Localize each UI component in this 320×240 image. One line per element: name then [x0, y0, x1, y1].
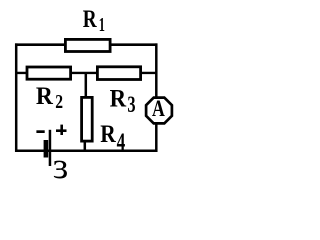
wire: R4 branch lower segment (R4 bottom to bottom wire) [84, 141, 87, 151]
svg-text:R: R [100, 121, 116, 148]
resistor R1 (top branch) [65, 39, 110, 51]
svg-text:3: 3 [127, 92, 135, 118]
svg-text:ε: ε [53, 146, 69, 180]
resistor R3 (right middle branch) [97, 67, 140, 80]
svg-text:A: A [152, 96, 165, 121]
svg-text:1: 1 [99, 14, 105, 36]
battery minus sign [36, 130, 44, 133]
battery positive plate (long thin bar) [49, 130, 52, 166]
battery plus sign (horizontal bar) [56, 129, 67, 132]
resistor R2 (left middle branch) [27, 67, 71, 79]
svg-text:R: R [36, 83, 54, 110]
svg-text:R: R [110, 85, 127, 112]
ammeter A1 body (octagonal circle) [146, 98, 172, 124]
battery negative plate (short thick bar) [44, 140, 49, 158]
svg-text:4: 4 [117, 129, 126, 156]
label epsilon (EMF of battery) [53, 146, 69, 187]
wire: left side of outer loop [15, 43, 18, 152]
wire: top side of outer loop [15, 43, 158, 46]
wire: middle horizontal wire with R2 and R3 [16, 72, 156, 74]
wire: R4 branch upper segment (junction to R4 top) [85, 73, 88, 98]
wire: bottom side of outer loop [15, 150, 158, 153]
resistor R4 (vertical middle branch) [82, 97, 93, 141]
wire: right side of outer loop (lower segment, ammeter to bottom corner) [155, 123, 158, 152]
svg-text:R: R [83, 6, 98, 33]
battery plus sign (vertical bar) [60, 125, 63, 135]
wire: right side of outer loop (upper segment, top corner to ammeter) [155, 43, 158, 98]
svg-text:2: 2 [55, 91, 63, 113]
